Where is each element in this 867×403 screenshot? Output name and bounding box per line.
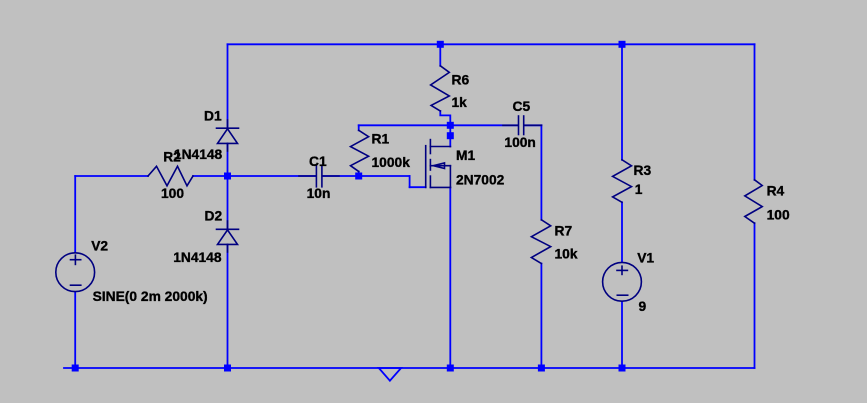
svg-text:R1: R1 [372,132,390,147]
svg-text:C1: C1 [309,154,327,169]
svg-text:1N4148: 1N4148 [174,147,223,162]
svg-text:M1: M1 [456,148,475,163]
svg-text:1k: 1k [452,95,468,110]
svg-text:1: 1 [635,182,643,197]
svg-text:R6: R6 [452,72,470,87]
svg-text:C5: C5 [513,99,531,114]
svg-text:10k: 10k [555,247,578,262]
svg-text:100n: 100n [504,135,535,150]
svg-text:9: 9 [639,299,647,314]
svg-text:V2: V2 [91,239,108,254]
svg-text:100: 100 [161,186,184,201]
svg-text:D2: D2 [205,209,223,224]
svg-text:1N4148: 1N4148 [173,250,222,265]
svg-text:SINE(0 2m 2000k): SINE(0 2m 2000k) [93,289,208,304]
svg-text:1000k: 1000k [372,155,411,170]
svg-text:R2: R2 [163,150,181,165]
svg-text:100: 100 [767,207,790,222]
svg-text:D1: D1 [204,108,222,123]
svg-text:R3: R3 [634,163,652,178]
svg-text:V1: V1 [637,250,654,265]
svg-text:2N7002: 2N7002 [456,172,505,187]
svg-text:R7: R7 [555,224,573,239]
svg-text:R4: R4 [767,183,785,198]
svg-text:10n: 10n [307,186,331,201]
